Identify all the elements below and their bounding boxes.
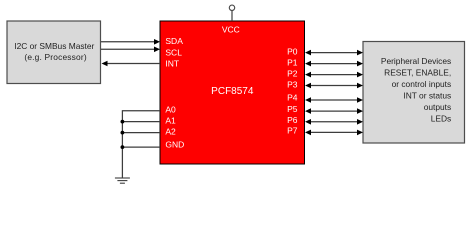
wire P7 (bidirectional): [305, 130, 363, 136]
svg-text:SCL: SCL: [165, 47, 182, 57]
wire SCL (master to PCF8574): [101, 47, 160, 53]
svg-text:I2C or SMBus Master: I2C or SMBus Master: [14, 41, 94, 51]
svg-text:P4: P4: [287, 93, 298, 103]
wire P0 (bidirectional): [305, 50, 363, 56]
block: Peripheral Devices: [363, 42, 465, 144]
svg-text:RESET, ENABLE,: RESET, ENABLE,: [384, 68, 451, 78]
svg-text:P6: P6: [287, 115, 298, 125]
svg-text:P5: P5: [287, 104, 298, 114]
block: I2C or SMBus Master: [7, 21, 101, 84]
wire address bus vertical to ground: [121, 110, 123, 178]
svg-text:LEDs: LEDs: [431, 114, 451, 124]
wire GND: [122, 146, 160, 148]
svg-text:P2: P2: [287, 69, 298, 79]
svg-text:P3: P3: [287, 80, 298, 90]
node junction A1: [121, 120, 125, 124]
wire P6 (bidirectional): [305, 119, 363, 125]
wire P5 (bidirectional): [305, 108, 363, 114]
svg-text:or control inputs: or control inputs: [392, 79, 452, 89]
pin VCC (supply terminal): [229, 5, 234, 21]
svg-text:GND: GND: [165, 140, 184, 150]
svg-text:INT: INT: [165, 58, 179, 68]
wire INT (PCF8574 to master): [102, 61, 161, 67]
wire A0: [122, 110, 160, 112]
svg-text:Peripheral Devices: Peripheral Devices: [381, 56, 451, 66]
svg-text:A1: A1: [165, 115, 176, 125]
wire P2 (bidirectional): [305, 72, 363, 78]
node junction A2: [121, 131, 125, 135]
svg-text:outputs: outputs: [424, 102, 451, 112]
IC U1 PCF8574: [160, 21, 305, 164]
wire P4 (bidirectional): [305, 97, 363, 103]
wire P3 (bidirectional): [305, 83, 363, 89]
svg-text:P7: P7: [287, 126, 298, 136]
svg-text:VCC: VCC: [222, 25, 240, 35]
wire SDA (master to PCF8574): [101, 39, 160, 45]
svg-text:A0: A0: [165, 104, 176, 114]
svg-text:PCF8574: PCF8574: [211, 86, 254, 97]
wire A1: [122, 121, 160, 123]
node junction GND: [121, 145, 125, 149]
wire P1 (bidirectional): [305, 61, 363, 67]
svg-text:(e.g. Processor): (e.g. Processor): [24, 52, 86, 62]
svg-text:P1: P1: [287, 58, 298, 68]
svg-text:P0: P0: [287, 47, 298, 57]
svg-text:A2: A2: [165, 127, 176, 137]
wire A2: [122, 132, 160, 134]
svg-text:SDA: SDA: [165, 36, 183, 46]
ground: [115, 178, 130, 183]
svg-text:INT or status: INT or status: [403, 91, 451, 101]
